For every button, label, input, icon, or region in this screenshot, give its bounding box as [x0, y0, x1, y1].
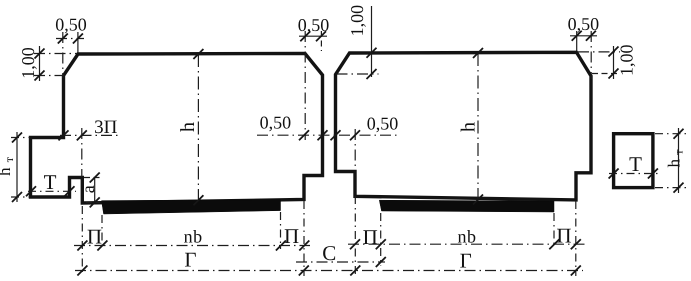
svg-text:Т: Т: [44, 170, 57, 194]
extension line deck corner left lower: [303, 201, 305, 276]
svg-text:Т: Т: [629, 152, 642, 176]
svg-text:1,00: 1,00: [616, 45, 636, 77]
extension line deck corner right-deck lower: [354, 196, 356, 276]
svg-text:nb: nb: [184, 227, 203, 247]
tick: [276, 241, 286, 251]
extension line h_t right bottom: [655, 187, 687, 189]
tick: [299, 241, 309, 251]
tick: [58, 34, 68, 44]
tick: [12, 192, 22, 202]
tick: [299, 266, 309, 276]
right deck slab band (solid fill): [379, 200, 554, 212]
tick: [367, 48, 377, 58]
tick: [59, 130, 69, 140]
tick: [473, 195, 483, 205]
tick: [90, 197, 100, 207]
dimension line h right deck: [477, 53, 479, 200]
tick: [12, 133, 22, 143]
extension line centre corner left: [304, 31, 306, 140]
extension line 1,00 left bottom: [34, 75, 64, 77]
tick: [609, 69, 619, 79]
svg-text:0,50: 0,50: [298, 15, 330, 35]
dimension line h_t right: [678, 128, 680, 193]
extension line 1,00 left top: [34, 53, 77, 55]
tick: [77, 266, 87, 276]
extension line chamfer-right vertical: [590, 31, 592, 79]
tick: [26, 186, 36, 196]
tick: [350, 266, 360, 276]
extension line right wall axis upper: [354, 129, 356, 170]
svg-text:0,50: 0,50: [367, 113, 399, 133]
svg-text:0,50: 0,50: [260, 113, 292, 133]
left deck outline: [31, 54, 323, 204]
tick: [571, 266, 581, 276]
extension line 1,00 right bottom: [592, 73, 620, 75]
tick: [299, 130, 309, 140]
svg-text:П: П: [87, 225, 102, 249]
tick: [674, 183, 684, 193]
left deck slab band (solid fill): [102, 200, 281, 214]
svg-text:3П: 3П: [94, 117, 118, 138]
tick: [674, 129, 684, 139]
dimension line 0,50 top-left: [56, 38, 84, 40]
extension line chamfer-left vertical: [62, 32, 64, 78]
svg-text:П: П: [363, 225, 378, 249]
tick: [65, 186, 75, 196]
extension line h_t left top: [11, 137, 30, 139]
tick: [35, 71, 45, 81]
tick: [367, 69, 377, 79]
extension line rib axis: [81, 128, 83, 177]
dimension line T right: [609, 173, 658, 175]
extension line h_t left bottom: [11, 196, 30, 198]
tick: [77, 241, 87, 251]
tick: [73, 34, 83, 44]
tick: [35, 49, 45, 59]
tick: [572, 31, 582, 41]
svg-text:1,00: 1,00: [347, 5, 367, 36]
extension line h_t right top: [655, 133, 687, 135]
extension line rib left lower: [81, 206, 83, 276]
tick: [609, 47, 619, 57]
svg-text:Г: Г: [184, 248, 196, 272]
svg-text:0,50: 0,50: [55, 15, 87, 35]
tick: [318, 130, 328, 140]
svg-text:0,50: 0,50: [568, 14, 600, 34]
extension line band end right: [553, 213, 555, 248]
dimension line 0,50 top centre: [299, 35, 327, 37]
tick: [586, 31, 596, 41]
dimension line 1,00 right: [613, 46, 615, 79]
dimension row Г chain: [75, 270, 583, 272]
tick: [571, 239, 581, 249]
dimension line 1,00 left: [39, 46, 41, 81]
extension line 1,00 right top: [578, 51, 620, 53]
dimension line 0,50 mid walls: [257, 134, 399, 136]
extension line chamfer bottom centre: [337, 73, 379, 75]
dimension line C short: [296, 261, 385, 263]
extension line band end left: [280, 212, 282, 249]
tick: [193, 49, 203, 59]
dimension line 3П: [60, 134, 118, 136]
dimension line h_t left: [16, 132, 18, 202]
tick: [473, 48, 483, 58]
svg-text:hт: hт: [0, 156, 16, 176]
tick: [97, 241, 107, 251]
svg-text:Г: Г: [460, 249, 472, 273]
right kerb block T: [614, 134, 653, 188]
tick: [648, 169, 658, 179]
svg-text:nb: nb: [458, 227, 477, 247]
right deck outline: [336, 52, 592, 200]
dimension line 1,00 centre: [371, 6, 373, 77]
tick: [300, 31, 310, 41]
tick: [609, 169, 619, 179]
svg-text:h: h: [458, 122, 480, 132]
extension line deck corner far right lower: [575, 201, 577, 276]
svg-text:П: П: [284, 224, 299, 248]
dimension row П nb П left: [74, 245, 310, 247]
svg-text:П: П: [556, 224, 571, 248]
tick: [90, 173, 100, 183]
extension line a bottom: [86, 201, 100, 203]
dimension line 0,50 top-right: [570, 35, 597, 37]
svg-text:hт: hт: [665, 149, 686, 168]
extension line band start right: [380, 213, 382, 266]
tick: [549, 239, 559, 249]
tick: [376, 257, 386, 267]
extension line corner-left vertical: [77, 32, 79, 53]
svg-text:1,00: 1,00: [18, 47, 38, 79]
dimension line h left deck: [197, 54, 199, 201]
tick: [193, 195, 203, 205]
extension line band start left: [101, 215, 103, 249]
dimension line T left: [28, 190, 76, 192]
tick: [77, 130, 87, 140]
extension line centre edge left: [320, 31, 322, 51]
svg-text:С: С: [322, 241, 336, 265]
dimension row П nb П right: [348, 243, 586, 245]
svg-text:h: h: [177, 122, 199, 132]
extension line a top: [84, 177, 100, 179]
dimension line a: [94, 178, 96, 203]
tick: [376, 239, 386, 249]
tick: [350, 239, 360, 249]
tick: [316, 31, 326, 41]
svg-text:a: a: [78, 185, 98, 193]
tick: [331, 130, 341, 140]
extension line corner-right vertical: [576, 31, 578, 51]
tick: [350, 130, 360, 140]
